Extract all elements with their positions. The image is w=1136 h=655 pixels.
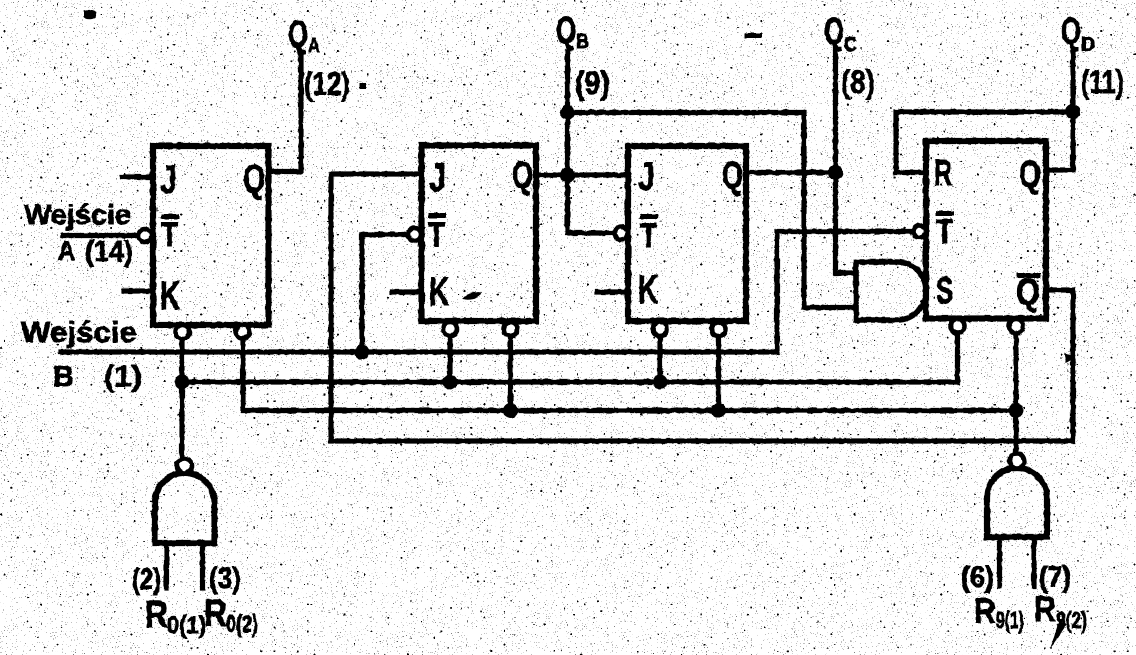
stray scan mark: dash top middle [745, 33, 762, 38]
svg-text:K: K [638, 268, 658, 312]
inverting bubble: T of U1 [139, 229, 152, 242]
flip-flop U4 (R-S, output D) [926, 141, 1046, 319]
svg-text:J: J [638, 155, 655, 199]
junction: QB at Q of U2 [560, 168, 575, 183]
inverting bubble: T of U2 [408, 228, 421, 241]
junction: U3 reset on R0 net [653, 375, 668, 390]
wire: U3 reset pin down to R0 net [657, 336, 662, 382]
svg-text:S: S [936, 270, 953, 311]
NAND gate N1 (R0 gate) [155, 473, 215, 543]
svg-text:J: J [429, 156, 446, 200]
wire: U1 reset pin down to NAND N1 [179, 339, 184, 459]
svg-text:Wejście: Wejście [21, 317, 137, 349]
svg-text:R: R [934, 152, 952, 193]
svg-text:R: R [204, 593, 227, 635]
svg-text:0(2): 0(2) [226, 611, 258, 638]
svg-text:(3): (3) [209, 562, 241, 595]
svg-text:Q: Q [824, 11, 844, 53]
junction: QD at Q of U4 [1066, 105, 1081, 120]
junction: U1 reset on R0 net [175, 375, 190, 390]
wire: Q of U2 to J of U3 [536, 172, 628, 177]
junction: U2 set on R9 net [503, 403, 518, 418]
wire: right NAND input leg pin 7 [1031, 537, 1036, 586]
NAND gate N2 (R9 gate) [987, 468, 1047, 537]
bubble: output of NAND N2 [1010, 454, 1025, 469]
stray scan mark: speck on Q-bar wire [1064, 353, 1076, 363]
wire: R9 set net (line 3) [243, 337, 1016, 411]
svg-text:R: R [1034, 590, 1056, 629]
stray scan mark: blob top left [84, 10, 97, 20]
flip-flop U3 (J-K) [628, 146, 746, 321]
bubble: U1 set pin [236, 325, 250, 339]
svg-text:K: K [429, 270, 449, 314]
svg-text:T: T [161, 216, 178, 254]
flip-flop U2 (J-K) [422, 146, 537, 322]
wire: U2 reset pin down to R0 net [447, 336, 452, 382]
svg-text:(6): (6) [961, 561, 994, 594]
svg-text:0(1): 0(1) [167, 612, 206, 639]
svg-text:D: D [1081, 34, 1095, 56]
stray scan mark: blob inside U2 [462, 292, 482, 300]
bubble: U2 set pin [504, 322, 518, 336]
wire: Q output of U3 to QC tap [746, 170, 836, 175]
svg-text:Q: Q [1016, 272, 1040, 314]
svg-text:Q: Q [1061, 11, 1081, 53]
svg-text:T: T [428, 216, 445, 254]
wire: input A line to T of U1 [63, 233, 138, 238]
bubble: U4 reset pin [951, 319, 965, 333]
wire: U4 set pin down to NAND N2 [1013, 333, 1018, 454]
wire: Q output of U1 up to QA pin 12 [269, 55, 302, 172]
bubble: U3 set pin [712, 322, 726, 336]
svg-text:B: B [53, 361, 74, 393]
wire: QB loop to AND gate lower input [568, 113, 857, 308]
svg-text:(2): (2) [132, 563, 161, 596]
wire: feedback Q-bar of U4 to J of U2 [331, 174, 1073, 441]
wire: QC net vertical to AND gate upper input [836, 48, 857, 273]
wire: R0 reset net (line 2) [182, 333, 958, 382]
svg-text:(9): (9) [575, 65, 610, 101]
svg-text:Q: Q [512, 155, 533, 197]
bubble: output of NAND N1 [177, 459, 192, 474]
wire: J input stub of U1 [122, 174, 153, 179]
wire: left NAND input leg pin 3 [200, 543, 205, 588]
stray scan mark: diagonal below R9(2) [1050, 621, 1067, 649]
wire: K stub of U3 [597, 289, 628, 294]
overbar of T of U4 [936, 211, 954, 216]
bubble: U4 set pin [1009, 319, 1023, 333]
wire: QD loop to R input of U4 [896, 112, 1073, 173]
wire: input B line to T of U4 [61, 232, 913, 353]
wire: U2 set pin down to R9 net [508, 336, 513, 411]
junction: QC at Q of U3 [828, 165, 843, 180]
svg-text:C: C [844, 34, 857, 56]
svg-text:(8): (8) [841, 64, 875, 100]
junction: U4 set on R9 net [1009, 403, 1024, 418]
wire: T input of U2 down to input B line [362, 235, 408, 353]
overbar of Q-bar of U4 [1017, 273, 1041, 278]
junction: U3 set on R9 net [711, 403, 726, 418]
svg-text:Wejście: Wejście [24, 199, 131, 230]
svg-text:(12): (12) [304, 66, 350, 102]
svg-text:Q: Q [556, 10, 576, 52]
wire: Q output of U4 up to QD pin 11 [1046, 52, 1073, 170]
wire: U3 set pin down to R9 net [716, 336, 721, 411]
svg-text:B: B [576, 31, 589, 53]
wire: left NAND input leg pin 2 [164, 543, 169, 588]
wire: K stub of U2 [392, 289, 422, 294]
svg-text:9(1): 9(1) [996, 607, 1024, 633]
inverting bubble: T of U4 [914, 226, 926, 238]
wire: K input stub of U1 [124, 288, 153, 293]
bubble: U2 reset pin [443, 322, 457, 336]
svg-text:A: A [58, 235, 75, 266]
svg-text:T: T [936, 213, 953, 251]
junction: U2 reset on R0 net [443, 375, 458, 390]
AND gate U5 [856, 262, 926, 320]
overbar of T of U2 [428, 213, 446, 218]
svg-text:R: R [145, 594, 168, 636]
svg-text:Q: Q [243, 157, 265, 201]
svg-text:(1): (1) [104, 361, 142, 393]
svg-text:R: R [974, 592, 996, 631]
junction: QB to loop [560, 105, 575, 120]
svg-text:(14): (14) [85, 236, 133, 268]
wire: right NAND input leg pin 6 [997, 537, 1002, 586]
wire: QB net vertical from label to T of U3 [568, 52, 615, 233]
svg-text:A: A [308, 35, 320, 57]
overbar of T of U3 [640, 214, 658, 219]
junction: T of U2 on input B line [355, 345, 370, 360]
stray scan mark: dot after (12) [359, 83, 366, 89]
svg-text:Q: Q [1019, 154, 1041, 196]
svg-text:J: J [160, 158, 177, 202]
svg-text:Q: Q [288, 14, 308, 56]
inverting bubble: T of U3 [615, 227, 628, 240]
flip-flop U1 (J-K, input A) [153, 146, 269, 325]
svg-text:(11): (11) [1081, 64, 1124, 100]
svg-text:Q: Q [722, 155, 743, 197]
svg-text:T: T [640, 217, 657, 255]
overbar of T of U1 [161, 214, 179, 219]
svg-text:K: K [160, 274, 180, 318]
bubble: U1 reset pin [176, 325, 190, 339]
bubble: U3 reset pin [653, 322, 667, 336]
